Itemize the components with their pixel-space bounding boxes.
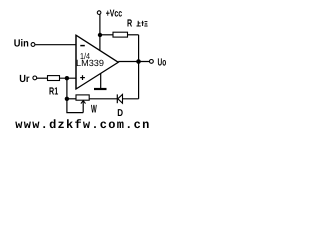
svg-text:Ur: Ur — [19, 74, 29, 85]
svg-text:www.dzkfw.com.cn: www.dzkfw.com.cn — [15, 118, 150, 132]
svg-text:R1: R1 — [49, 87, 58, 98]
svg-text:Uo: Uo — [158, 57, 167, 68]
svg-text:+Vcc: +Vcc — [106, 8, 123, 19]
svg-text:R: R — [127, 18, 133, 29]
svg-text:LM339: LM339 — [76, 58, 104, 68]
svg-text:Uin: Uin — [14, 38, 29, 49]
svg-text:W: W — [91, 103, 97, 115]
